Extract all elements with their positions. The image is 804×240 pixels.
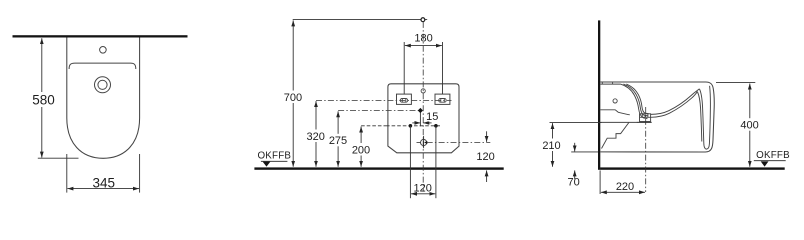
supply reference line (top) (293, 19, 428, 21)
OKFFB underline (front) (261, 160, 288, 162)
bidet body outline (plan) (67, 38, 140, 159)
dimension 70 extension line (571, 151, 598, 153)
rim deck inner line (600, 83, 620, 85)
drain flange mid line (640, 116, 651, 118)
dimension 580 line (41, 38, 43, 157)
dimension 220 line (601, 191, 645, 193)
dimension 400 label (740, 118, 760, 131)
OKFFB underline (side) (754, 160, 786, 162)
bowl curve 3 (626, 84, 648, 114)
inlet circle (side) (613, 99, 617, 103)
svg-text:OKFFB: OKFFB (756, 150, 790, 161)
svg-text:180: 180 (414, 33, 432, 45)
svg-text:580: 580 (32, 93, 55, 108)
bowl back slope upper (651, 89, 700, 115)
dimension 275 label (329, 134, 348, 147)
dimension 70 upper arrow (574, 143, 576, 152)
dimension 200 line (360, 127, 362, 167)
right bolt dot (434, 124, 438, 128)
drain crosshair left tick (417, 142, 421, 144)
dimension 400 top extension (716, 82, 755, 84)
drain axis dash-dot (side) (645, 107, 647, 192)
drain axis dash-dot to right (427, 142, 491, 144)
svg-text:275: 275 (329, 135, 347, 147)
left bolt vertical line (409, 126, 411, 198)
svg-text:15: 15 (426, 111, 438, 123)
dimension 120 right upper arrow (486, 131, 488, 142)
dimension 345 extension lines (66, 154, 68, 193)
bolt-dots dashed connector (200 level) (361, 125, 386, 127)
svg-text:700: 700 (284, 92, 302, 104)
drain circle (front) (421, 139, 427, 145)
drain inner circle (98, 80, 107, 89)
drain crosshair vertical (423, 136, 425, 148)
wall bar (plan view) (13, 35, 188, 37)
dimension 345 line (67, 188, 139, 190)
wall line (side) (598, 20, 600, 169)
drain flange ticks (641, 114, 643, 118)
OKFFB datum triangle (front) (263, 162, 271, 167)
dimension 320 line (315, 101, 317, 167)
small top circle (front) (421, 89, 425, 93)
right fixing slot (439, 99, 447, 103)
dimension 120 right lower arrow (486, 170, 488, 182)
dimension 180 line (405, 45, 442, 47)
floor line (front view) (254, 167, 503, 169)
rim edge line (69, 63, 136, 69)
bidet body outline (front) (388, 84, 459, 153)
bowl back slope lower (651, 92, 698, 118)
dimension 210 extension line (550, 121, 602, 123)
svg-text:320: 320 (307, 131, 325, 143)
dimension 210 line (552, 123, 554, 167)
front apron second line (697, 92, 702, 142)
bolt dashed line (386, 125, 441, 127)
bowl curve 1 (621, 84, 648, 119)
trap step line 2 (600, 121, 651, 123)
dimension 700 line (292, 20, 294, 166)
trap step line 1 (600, 110, 630, 115)
center axis dash-dot (front) (422, 22, 424, 192)
svg-text:OKFFB: OKFFB (257, 151, 291, 162)
left slot ticks (401, 99, 403, 103)
svg-text:120: 120 (476, 151, 494, 163)
dimension 200 label (352, 143, 371, 156)
dimension 400 line (749, 84, 751, 167)
dimension 210 label (542, 139, 562, 152)
svg-text:200: 200 (352, 144, 370, 156)
svg-text:220: 220 (616, 181, 634, 193)
left fixing slot (400, 99, 408, 103)
right fixing hole rectangle (435, 94, 450, 104)
left bolt dot (409, 124, 413, 128)
deck fixing ticks (601, 82, 603, 84)
faucet hole (100, 47, 107, 54)
water inlet diamond marker (418, 108, 423, 113)
right slot ticks (440, 99, 442, 103)
left fixing hole rectangle (397, 94, 412, 104)
svg-text:70: 70 (567, 177, 579, 189)
bidet silhouette (side) (600, 82, 714, 152)
inlet extension tick (419, 113, 421, 127)
mounting step outline (602, 123, 629, 149)
drain marker wedge (424, 141, 427, 144)
dimension 15 label (427, 112, 439, 122)
dimension 580 label (32, 92, 54, 107)
floor line (side) (600, 167, 785, 169)
svg-text:345: 345 (93, 175, 116, 190)
dimension 15 right arrow segment (423, 122, 431, 124)
dimension 180 extension lines (403, 42, 405, 94)
dimension 70 lower arrow (574, 170, 576, 179)
fixing axis dash-dot connector (320 level) (316, 99, 452, 101)
dimension 700 label (284, 91, 303, 104)
dimension 580 bottom extension line (38, 157, 79, 159)
inlet axis dash-dot connector (275 level) (338, 110, 418, 112)
svg-text:210: 210 (542, 140, 560, 152)
drain outer circle (95, 77, 111, 93)
bowl curve 2 (623, 84, 648, 116)
front apron inner loop (699, 86, 710, 149)
dimension 220 left extension (599, 170, 601, 194)
dimension 320 label (307, 130, 326, 143)
drain flange outline (640, 114, 651, 122)
svg-text:400: 400 (740, 120, 758, 132)
svg-text:120: 120 (414, 182, 432, 194)
right bolt vertical line (435, 126, 437, 198)
dimension 275 line (337, 111, 339, 167)
drain flange bottom plate (637, 121, 652, 123)
dimension 120 bottom line (411, 193, 435, 195)
OKFFB datum triangle (side) (761, 161, 769, 166)
supply connection circle (421, 18, 425, 22)
dimension 15 left arrow segment (412, 122, 420, 124)
